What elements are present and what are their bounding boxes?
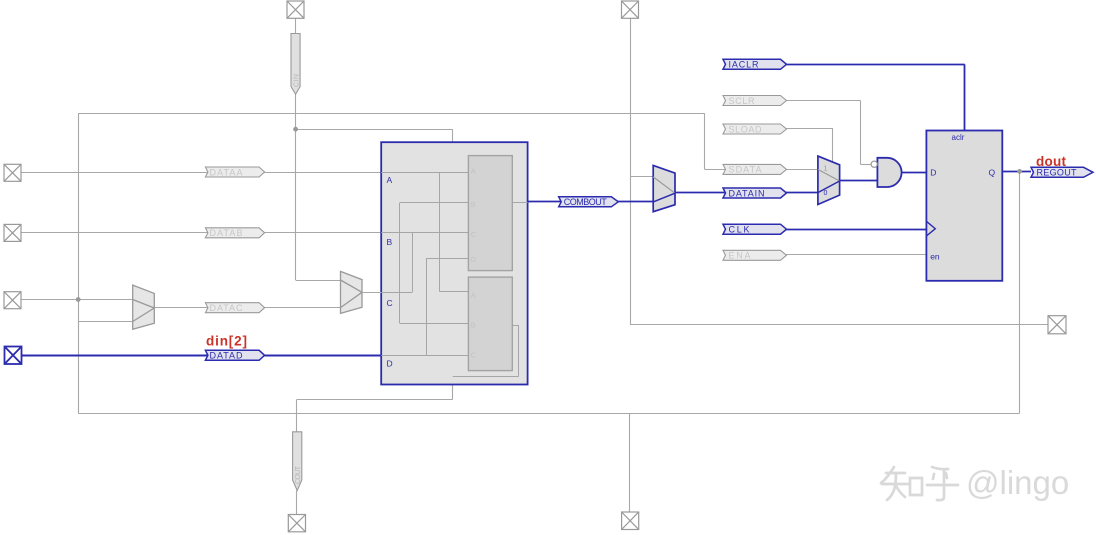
svg-text:ENA: ENA [729, 251, 751, 261]
wire CIN branch to mux S2 top input [296, 280, 341, 282]
wire LUT box1 pin D row [426, 258, 468, 260]
LUT inner box2 pin labels [471, 291, 477, 360]
svg-text:DATAB: DATAB [210, 228, 243, 238]
wire LUT input D row internal [381, 355, 468, 357]
wire DATAD blue row [22, 355, 382, 357]
wire SCLR row [784, 100, 861, 102]
svg-text:A: A [471, 291, 476, 300]
input pad DATAA [4, 164, 21, 181]
wire pad2 branch to mux S3 top input [630, 176, 653, 178]
label flag REGOUT [1031, 167, 1093, 177]
wire net Q-feedback top horizontal [78, 113, 704, 115]
label flag DATAIN [723, 188, 787, 198]
svg-text:DATAA: DATAA [210, 167, 243, 177]
output pad COUT [288, 515, 305, 532]
wire LUT box2 output to chain [453, 376, 519, 378]
svg-text:en: en [930, 252, 940, 262]
input pad DATAB [4, 224, 21, 241]
wire LUT B-net vertical [399, 203, 401, 324]
wire feedback net drop to bottom pad2 [629, 414, 631, 513]
svg-text:REGOUT: REGOUT [1037, 168, 1078, 178]
svg-text:D: D [471, 255, 477, 264]
label flag SDATA [723, 164, 787, 174]
label flag COMBOUT [559, 197, 619, 207]
wire CIN vertical [295, 94, 297, 280]
wire LUT A vertical [439, 173, 441, 292]
gate G1 and-gate [877, 158, 901, 187]
wire COMBOUT blue row [528, 201, 654, 203]
output pad bottom2 [622, 512, 639, 530]
wire COUT pin to pad [296, 491, 298, 515]
label flag DATAB [205, 228, 264, 238]
svg-text:D: D [387, 359, 393, 369]
wire IACLR blue row [784, 64, 965, 66]
wire CIN/COUT chain vertical through LUT [452, 129, 454, 399]
wire gate out to D [902, 172, 927, 174]
wire DATAA row [21, 172, 381, 174]
output pad right [1048, 316, 1066, 334]
wire branch to mux S1 bottom input [78, 321, 133, 323]
svg-text:A: A [387, 175, 393, 185]
flip-flop U2 pin labels [930, 133, 995, 262]
mux S3 combout select mux [653, 165, 675, 211]
pin CIN [291, 34, 301, 95]
node junction dot feedback-pin3 [76, 297, 81, 302]
LUT input labels [387, 175, 393, 369]
svg-text:D: D [930, 168, 936, 178]
svg-text:SLOAD: SLOAD [729, 124, 763, 134]
svg-text:aclr: aclr [952, 133, 965, 142]
svg-text:Q: Q [989, 168, 996, 178]
wire LUT mid vertical [412, 233, 414, 292]
svg-text:din[2]: din[2] [206, 334, 247, 349]
wire mux S4 out to gate [840, 180, 878, 182]
svg-text:IACLR: IACLR [729, 60, 760, 70]
watermark [881, 467, 958, 500]
wire CLK blue row [784, 229, 927, 231]
wire DATAB row [21, 232, 381, 234]
svg-text:C: C [387, 298, 393, 308]
wire LUT box2 output stub [512, 325, 519, 327]
svg-text:0: 0 [824, 190, 828, 197]
svg-text:1: 1 [824, 166, 828, 173]
wire SLOAD row [784, 128, 834, 130]
svg-text:B: B [387, 237, 393, 247]
label flag DATAC [205, 303, 264, 313]
wire net Q-feedback bottom horizontal [78, 413, 1019, 415]
input pad CIN [287, 1, 304, 18]
svg-text:SCLR: SCLR [729, 96, 756, 106]
wire COUT drop to COUT pin [296, 399, 298, 432]
svg-text:A: A [471, 167, 476, 176]
svg-text:COMBOUT: COMBOUT [564, 197, 608, 207]
label flag SLOAD [723, 124, 787, 134]
svg-text:B: B [471, 321, 476, 330]
label flag IACLR [723, 59, 787, 69]
svg-text:dout: dout [1036, 154, 1067, 169]
mux S2 [341, 271, 363, 313]
wire LUT box2 pin B row [400, 323, 469, 325]
pin COUT [293, 432, 302, 491]
svg-text:DATAIN: DATAIN [729, 188, 765, 198]
wire LUT input B row internal [381, 232, 468, 234]
svg-text:C: C [471, 230, 477, 239]
wire LUT A to box2 pin A [440, 291, 469, 293]
input pad pin3 [4, 292, 21, 309]
flip-flop U2 body [926, 131, 1002, 281]
svg-text:SDATA: SDATA [729, 165, 762, 175]
wire LUT D vertical [426, 259, 428, 356]
mux S4 sload mux [818, 156, 840, 204]
svg-text:C: C [471, 351, 477, 360]
node junction dot CIN branch [293, 127, 298, 132]
LUT inner box1 pin labels [471, 167, 477, 264]
label flag DATAA [205, 167, 264, 177]
gate G1 input bubble [871, 161, 877, 167]
wire top pad2 vertical [630, 18, 632, 325]
svg-text:COUT: COUT [295, 465, 302, 484]
input pad top2 [622, 1, 639, 18]
svg-text:@lingo: @lingo [966, 464, 1069, 501]
LUT inner box2 [468, 277, 512, 371]
wire SDATA row to mux S4 top input [705, 169, 818, 171]
wire LUT box1 output stub [512, 202, 527, 204]
svg-text:DATAC: DATAC [210, 303, 244, 313]
wire IACLR drop to aclr [964, 64, 966, 130]
wire ENA row [784, 254, 927, 256]
label flag CLK [723, 224, 787, 234]
LUT inner box1 [468, 156, 512, 271]
wire COUT horizontal under LUT [297, 399, 453, 401]
label flag DATAD [205, 350, 264, 360]
wire LUT input A row internal [381, 172, 468, 174]
svg-text:B: B [471, 200, 476, 209]
wire SCLR to gate bubble [860, 164, 871, 166]
mux S1 [133, 285, 155, 329]
wire DATAIN blue row [675, 192, 818, 194]
wire DATAC row mux S1 out to mux S2 [154, 307, 340, 309]
wire net Q-feedback left vertical [78, 113, 80, 413]
wire mux S2 output to LUT C [362, 292, 381, 294]
svg-text:CLK: CLK [729, 225, 750, 235]
wire LUT box1 pin B row [400, 202, 469, 204]
wire SCLR vertical drop [860, 101, 862, 165]
label flag ENA [723, 250, 787, 260]
wire Q out to REGOUT [1002, 171, 1031, 173]
LUT U1 body [381, 142, 527, 384]
wire CIN branch horizontal [296, 129, 453, 131]
wire LUT input C row internal [381, 292, 412, 294]
svg-text:DATAD: DATAD [210, 351, 244, 361]
node junction dot REGOUT [1017, 169, 1022, 174]
wire CIN pad to CIN pin [295, 18, 297, 34]
wire Q-feedback drop to SDATA [704, 113, 706, 169]
wire pad2 to right pad [630, 324, 1048, 326]
input pad din2 blue [5, 347, 22, 365]
svg-text:CIN: CIN [294, 74, 301, 87]
label flag SCLR [723, 96, 787, 106]
wire LUT box2 output vertical [518, 325, 520, 377]
wire net Q-feedback right vertical [1019, 171, 1021, 413]
wire SLOAD drop to mux S4 select [832, 129, 834, 163]
flip-flop U2 clock chevron [926, 221, 935, 236]
wire input pin3 to mux S1 top input [21, 299, 133, 301]
